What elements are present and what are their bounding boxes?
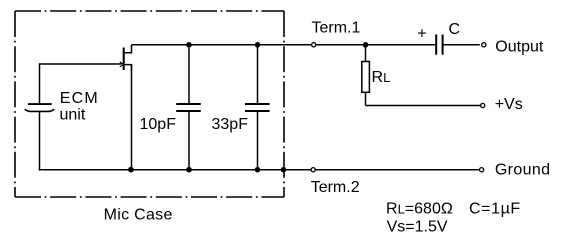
resistor RL	[362, 45, 370, 106]
svg-text:ECM: ECM	[60, 90, 99, 107]
junction dot 33pF bottom	[255, 167, 261, 173]
svg-text:+: +	[417, 25, 426, 42]
svg-text:10pF: 10pF	[140, 116, 177, 133]
source tap	[125, 65, 132, 70]
wire: top rail from drain to coupling cap	[132, 44, 437, 46]
svg-text:RL: RL	[372, 69, 391, 86]
wire: ECM loop left upper segment	[39, 63, 41, 104]
svg-text:C=1µF: C=1µF	[469, 201, 521, 218]
svg-text:Mic Case: Mic Case	[104, 206, 173, 223]
svg-text:Output: Output	[495, 38, 544, 55]
wire: RL bottom to +Vs terminal	[366, 105, 481, 107]
terminal +Vs open circle	[481, 103, 485, 107]
junction dot 10pF bottom	[186, 167, 192, 173]
wire: source down to ground bus	[131, 65, 133, 170]
terminal Output open circle	[482, 43, 486, 47]
svg-text:Ground: Ground	[495, 162, 550, 179]
transistor Q1 (JFET inside capsule)	[120, 45, 132, 70]
drain tap	[125, 45, 132, 53]
svg-text:unit: unit	[60, 107, 86, 124]
junction dot 10pF top	[186, 42, 192, 48]
mic case dash-dot boundary	[15, 11, 284, 197]
ECM electret element (mic capsule capacitor)	[25, 104, 54, 111]
svg-text:RL=680Ω: RL=680Ω	[386, 201, 453, 218]
svg-text:C: C	[449, 21, 461, 38]
junction dot case-ground	[281, 167, 287, 173]
svg-text:Vs=1.5V: Vs=1.5V	[387, 219, 448, 236]
capacitor C1 10pF	[176, 45, 201, 170]
wire: ground bus inside case	[39, 169, 480, 171]
svg-text:+Vs: +Vs	[495, 96, 523, 113]
wire: ECM loop left lower segment	[39, 111, 41, 170]
terminal Ground open circle	[480, 168, 484, 172]
junction dot source-ground	[128, 167, 134, 173]
capacitor C (output coupling)	[436, 35, 442, 55]
wire: cap C to output terminal	[443, 44, 480, 46]
terminal Term.2 open circle	[311, 168, 315, 172]
terminal Term.1 open circle	[312, 43, 316, 47]
junction dot RL top	[363, 42, 369, 48]
svg-text:Term.2: Term.2	[311, 179, 360, 196]
gate arrowhead	[120, 62, 123, 67]
wire: gate wire / top of ECM loop	[40, 63, 122, 65]
svg-text:Term.1: Term.1	[312, 20, 361, 37]
capacitor C2 33pF	[245, 45, 270, 170]
junction dot 33pF top	[255, 42, 261, 48]
channel bar	[123, 48, 125, 71]
svg-text:33pF: 33pF	[212, 116, 249, 133]
